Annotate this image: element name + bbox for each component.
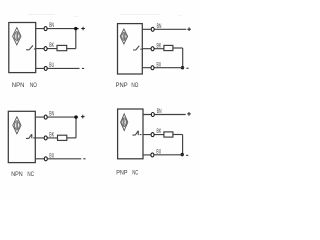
BK connector circle Q3	[44, 136, 47, 140]
svg-text:NC: NC	[27, 171, 34, 178]
svg-text:NC: NC	[132, 169, 138, 176]
BN wire Q3	[35, 116, 78, 118]
switch NC Q3	[26, 134, 35, 138]
svg-text:PNP: PNP	[116, 82, 128, 89]
BU wire Q1	[36, 67, 80, 69]
diamond inner lens Q2	[122, 32, 126, 41]
svg-text:BN: BN	[157, 109, 162, 115]
BN wire Q4	[143, 114, 186, 116]
BN wire Q1	[36, 28, 79, 30]
junction dot Q2	[181, 66, 184, 69]
wire resistor to riser Q1	[67, 48, 76, 50]
riser wire Q3	[75, 117, 77, 138]
ghost marks top strip	[28, 15, 182, 17]
BK connector circle Q4	[151, 133, 154, 137]
BU connector circle Q2	[151, 66, 154, 70]
BK wire Q1	[36, 48, 57, 50]
BN wire Q2	[142, 28, 186, 30]
BU connector circle Q4	[151, 153, 154, 157]
riser wire Q4	[182, 135, 184, 155]
sensor box Q1	[9, 23, 36, 73]
wire resistor to riser Q2	[173, 47, 183, 49]
svg-text:NO: NO	[131, 82, 138, 89]
sensor diamond Q3	[13, 117, 21, 134]
BK wire Q2	[142, 48, 164, 50]
BU connector circle Q1	[44, 66, 47, 70]
svg-text:BN: BN	[157, 24, 162, 30]
svg-text:NPN: NPN	[12, 82, 25, 89]
svg-text:NO: NO	[30, 82, 37, 89]
riser wire Q2	[182, 48, 184, 68]
BK wire Q3	[35, 137, 57, 139]
switch NC Q4	[133, 131, 142, 135]
BU wire Q2	[142, 67, 184, 69]
svg-text:BK: BK	[49, 43, 54, 49]
svg-text:BU: BU	[157, 62, 162, 68]
switch NO Q1	[26, 45, 35, 49]
diamond inner lens Q4	[122, 117, 127, 127]
BU wire Q3	[35, 158, 81, 160]
minus terminal Q4	[186, 154, 188, 156]
junction dot Q4	[181, 153, 184, 156]
svg-text:BN: BN	[49, 112, 54, 118]
plus terminal Q4	[187, 112, 191, 116]
sensor diamond Q4	[121, 114, 128, 131]
BU wire Q4	[143, 154, 184, 156]
wire resistor to riser Q4	[173, 134, 183, 136]
load resistor Q3	[58, 135, 67, 140]
BK connector circle Q1	[44, 47, 47, 51]
svg-text:PNP: PNP	[116, 169, 128, 176]
svg-text:BK: BK	[157, 43, 162, 49]
riser wire Q1	[75, 29, 77, 49]
load resistor Q1	[57, 45, 67, 50]
sensor diamond Q2	[120, 29, 127, 44]
BN connector circle Q4	[151, 113, 154, 117]
svg-text:BN: BN	[49, 23, 54, 29]
load resistor Q2	[164, 45, 173, 50]
load resistor Q4	[164, 132, 173, 137]
wire resistor to riser Q3	[67, 137, 76, 139]
diamond inner lens Q3	[14, 120, 19, 130]
BN connector circle Q1	[44, 27, 47, 31]
junction dot Q1	[74, 27, 77, 30]
svg-text:NPN: NPN	[11, 171, 23, 178]
svg-text:BU: BU	[49, 153, 54, 159]
plus terminal Q3	[81, 115, 85, 119]
sensor box Q2	[118, 24, 143, 74]
minus terminal Q1	[82, 67, 84, 69]
svg-text:BU: BU	[49, 63, 54, 69]
plus terminal Q1	[81, 27, 85, 31]
BU connector circle Q3	[44, 157, 47, 161]
minus terminal Q2	[186, 67, 188, 69]
BN connector circle Q2	[151, 27, 154, 31]
minus terminal Q3	[83, 158, 85, 160]
BN connector circle Q3	[44, 115, 47, 119]
sensor box Q3	[8, 111, 35, 162]
switch NO Q2	[133, 46, 142, 50]
svg-text:BK: BK	[49, 133, 54, 139]
plus terminal Q2	[187, 27, 191, 31]
svg-text:BU: BU	[156, 149, 161, 155]
diamond inner lens Q1	[14, 31, 19, 41]
sensor diamond Q1	[13, 28, 21, 45]
junction dot Q3	[74, 115, 77, 118]
svg-text:BK: BK	[157, 129, 162, 135]
sensor box Q4	[118, 109, 143, 159]
BK connector circle Q2	[151, 47, 154, 51]
BK wire Q4	[143, 134, 164, 136]
